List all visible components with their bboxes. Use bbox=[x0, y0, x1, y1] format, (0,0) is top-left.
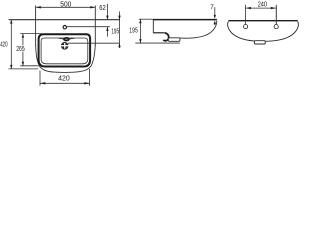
195 right dimension bbox=[139, 19, 141, 43]
overflow slot detail bbox=[59, 37, 75, 40]
side view rim top extension line bbox=[139, 18, 153, 20]
rear view drain tab bbox=[254, 41, 265, 44]
tap hole bbox=[63, 26, 66, 29]
svg-text:265: 265 bbox=[16, 46, 25, 53]
420 left dimension (depth) bbox=[10, 20, 12, 69]
265 dimension bbox=[20, 34, 42, 66]
svg-text:420: 420 bbox=[58, 75, 70, 82]
plan view outer front silhouette bbox=[36, 45, 96, 73]
side view trap curl bbox=[163, 33, 168, 41]
240 right extension line bbox=[275, 5, 277, 25]
195 left dimension (rim to drain bottom) bbox=[118, 12, 120, 49]
tap hole extension line (62 dim) bbox=[67, 26, 110, 28]
svg-text:240: 240 bbox=[258, 1, 267, 8]
side view back edge bbox=[152, 20, 154, 33]
svg-text:500: 500 bbox=[60, 1, 71, 8]
bowl outer rim (thick) bbox=[39, 34, 91, 66]
side view 195 bottom extension line bbox=[135, 42, 180, 44]
7 dimension bbox=[214, 7, 217, 25]
svg-text:7: 7 bbox=[210, 4, 214, 11]
svg-text:195: 195 bbox=[129, 28, 138, 35]
svg-text:420: 420 bbox=[0, 41, 8, 48]
240 dimension line bbox=[246, 7, 277, 9]
plan view back edge line (with extensions both sides) bbox=[9, 19, 120, 21]
420 bottom extension line bbox=[9, 68, 39, 70]
side view bottom back ledge bbox=[153, 32, 165, 34]
62 dimension (tap hole from back edge) bbox=[106, 4, 108, 37]
500 dimension line bbox=[36, 6, 95, 8]
bowl inner rim (thin) bbox=[41, 38, 88, 64]
side view rim top (thick) bbox=[153, 19, 217, 21]
rear view right fixing hole bbox=[274, 25, 278, 29]
plan view left edge + 500 extension bbox=[35, 6, 37, 46]
drain top tangent extension line (195 left dim) bbox=[68, 42, 120, 44]
side view drain box bbox=[168, 38, 180, 42]
240 left extension line bbox=[245, 5, 247, 25]
rear view body outline bbox=[228, 22, 299, 42]
420 bottom width dimension bbox=[40, 69, 90, 86]
svg-text:62: 62 bbox=[99, 5, 106, 12]
rear view top edge (thick) bbox=[228, 20, 297, 22]
rear view left fixing hole bbox=[244, 25, 248, 29]
side view underside curve bbox=[180, 21, 217, 39]
svg-text:195: 195 bbox=[111, 28, 119, 35]
plan view right edge + 500 extension bbox=[94, 6, 96, 46]
drain screw bbox=[60, 43, 69, 49]
